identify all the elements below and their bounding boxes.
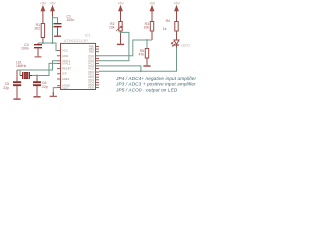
svg-text:AIN0: AIN0 bbox=[62, 54, 69, 58]
svg-text:16MHz: 16MHz bbox=[16, 64, 27, 68]
svg-text:+5V: +5V bbox=[40, 2, 47, 6]
svg-text:+5V: +5V bbox=[174, 2, 181, 6]
svg-text:22p: 22p bbox=[42, 85, 48, 89]
svg-text:1k: 1k bbox=[163, 27, 167, 31]
svg-text:IC1: IC1 bbox=[85, 34, 91, 38]
svg-text:JP4 / ADC4+ negative input amp: JP4 / ADC4+ negative input amplifier bbox=[115, 76, 196, 81]
svg-text:+5V: +5V bbox=[50, 2, 57, 6]
svg-text:47k: 47k bbox=[139, 53, 145, 57]
svg-text:PD6: PD6 bbox=[89, 86, 95, 90]
svg-text:+5V: +5V bbox=[118, 2, 125, 6]
svg-text:AT90S2313P: AT90S2313P bbox=[64, 39, 88, 43]
svg-text:2k2: 2k2 bbox=[35, 27, 41, 31]
svg-text:VCC: VCC bbox=[62, 49, 68, 53]
svg-text:R4: R4 bbox=[166, 19, 170, 23]
svg-text:RESET: RESET bbox=[62, 67, 72, 71]
svg-text:10k: 10k bbox=[109, 26, 115, 30]
svg-text:JP5 / ACO0 - output on LED: JP5 / ACO0 - output on LED bbox=[115, 87, 178, 92]
svg-text:22p: 22p bbox=[3, 86, 9, 90]
svg-text:GND: GND bbox=[62, 86, 68, 90]
svg-text:ICP: ICP bbox=[62, 72, 67, 76]
svg-text:LED1: LED1 bbox=[181, 44, 190, 48]
svg-text:100n: 100n bbox=[21, 47, 29, 51]
svg-text:AREF: AREF bbox=[62, 77, 70, 81]
svg-text:JP3 / ADC3 + positive input am: JP3 / ADC3 + positive input amplifier bbox=[115, 82, 196, 87]
svg-text:10k: 10k bbox=[144, 26, 150, 30]
svg-text:100n: 100n bbox=[67, 18, 75, 22]
svg-text:+5V: +5V bbox=[149, 2, 156, 6]
svg-text:XTAL2: XTAL2 bbox=[62, 61, 71, 65]
